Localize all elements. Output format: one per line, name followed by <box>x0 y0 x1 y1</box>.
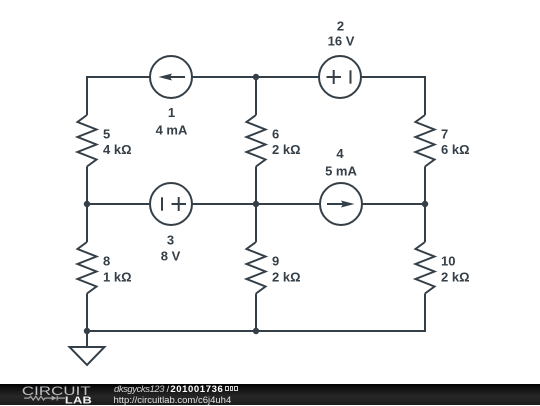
label I4 <box>325 146 357 178</box>
resistor R7 <box>416 115 435 167</box>
wire middle vertical lower <box>255 204 257 242</box>
wire middle vertical mid <box>255 167 257 205</box>
svg-text:3: 3 <box>167 232 174 247</box>
svg-text:6: 6 <box>272 127 279 142</box>
svg-text:1 kΩ: 1 kΩ <box>103 270 132 285</box>
node top-middle junction <box>253 74 259 80</box>
CircuitLab logo <box>0 384 110 405</box>
voltage source V2 <box>319 56 361 98</box>
label I1 <box>156 105 188 138</box>
ground <box>70 331 105 365</box>
resistor R5 <box>78 115 97 167</box>
label R8 <box>103 254 132 285</box>
node left-middle junction <box>84 201 90 207</box>
svg-text:5: 5 <box>103 127 110 142</box>
svg-text:6 kΩ: 6 kΩ <box>441 142 470 157</box>
svg-text:4 mA: 4 mA <box>156 123 188 138</box>
svg-text:2 kΩ: 2 kΩ <box>441 270 470 285</box>
wire top-left corner <box>87 77 150 115</box>
current source I1 <box>150 56 192 98</box>
wire top row third <box>256 76 319 78</box>
resistor R8 <box>78 242 97 294</box>
wire right vertical mid <box>424 167 426 205</box>
label V2 <box>328 19 355 49</box>
wire middle row second <box>192 203 256 205</box>
svg-text:4 kΩ: 4 kΩ <box>103 142 132 157</box>
wire bottom row left <box>87 330 256 332</box>
footer url line <box>114 395 232 406</box>
svg-text:9: 9 <box>272 254 279 269</box>
current source I4 <box>320 183 362 225</box>
svg-text:2 kΩ: 2 kΩ <box>272 142 301 157</box>
wire middle vertical bottom <box>255 294 257 332</box>
footer bar <box>0 384 540 405</box>
wire left vertical bottom <box>86 294 88 332</box>
svg-text:LAB: LAB <box>65 396 92 405</box>
wire middle vertical upper <box>255 77 257 115</box>
wire middle row left <box>87 203 150 205</box>
wire top row second <box>192 76 256 78</box>
node right-middle junction <box>422 201 428 207</box>
resistor R9 <box>247 242 266 294</box>
label R9 <box>272 254 301 285</box>
svg-text:5 mA: 5 mA <box>325 163 357 178</box>
svg-text:8 V: 8 V <box>161 248 181 263</box>
svg-text:7: 7 <box>441 127 448 142</box>
footer username line <box>114 386 238 395</box>
wire bottom-right corner <box>256 294 425 332</box>
node center junction <box>253 201 259 207</box>
svg-text:8: 8 <box>103 254 110 269</box>
svg-text:10: 10 <box>441 254 455 269</box>
label R10 <box>441 254 470 285</box>
wire left vertical mid1 <box>86 167 88 205</box>
svg-text:4: 4 <box>336 146 344 161</box>
label R7 <box>441 127 470 158</box>
wire middle row right <box>362 203 425 205</box>
resistor R10 <box>416 242 435 294</box>
label R5 <box>103 127 132 158</box>
node bottom-middle junction <box>253 328 259 334</box>
label V3 <box>161 232 181 263</box>
svg-text:2: 2 <box>337 19 344 34</box>
label R6 <box>272 127 301 158</box>
node ground junction <box>84 328 90 334</box>
svg-text:2 kΩ: 2 kΩ <box>272 270 301 285</box>
wire left vertical lower <box>86 204 88 242</box>
resistor R6 <box>247 115 266 167</box>
wire right vertical lower <box>424 204 426 242</box>
wire middle row third <box>256 203 320 205</box>
voltage source V3 <box>150 183 192 225</box>
svg-text:1: 1 <box>168 105 175 120</box>
wire top-right corner <box>361 77 425 115</box>
svg-text:16 V: 16 V <box>328 33 355 48</box>
